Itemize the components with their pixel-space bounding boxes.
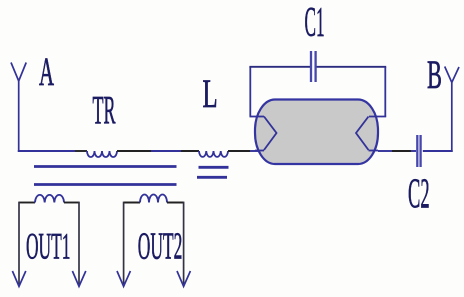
wire: OUT2 right lead xyxy=(183,202,185,284)
wire: filter to C2 xyxy=(378,150,392,152)
transformer secondary winding 2 (right) xyxy=(124,202,140,204)
arrow: OUT1 left xyxy=(12,271,25,286)
wire: OUT1 right lead xyxy=(78,202,80,284)
arrow: OUT2 left xyxy=(117,271,130,286)
wire: C1 loop left vertical xyxy=(249,67,251,117)
svg-text:TR: TR xyxy=(93,87,116,132)
wire: main into left electrode xyxy=(255,150,264,152)
svg-text:A: A xyxy=(39,50,54,94)
svg-text:OUT2: OUT2 xyxy=(138,226,183,267)
wire: C2 to antenna B xyxy=(423,150,453,152)
wire: C1 loop top left xyxy=(249,66,310,68)
transformer core line 1 xyxy=(34,165,177,168)
wire: C1 loop top right xyxy=(316,66,386,68)
inductor L core line 2 xyxy=(197,176,227,179)
transformer TR primary coil xyxy=(87,151,117,157)
wire: OUT1 left lead xyxy=(18,202,20,284)
capacitor C2 xyxy=(416,135,418,167)
svg-text:C1: C1 xyxy=(305,0,325,45)
wire: OUT2 left lead xyxy=(123,202,125,284)
capacitor C1 xyxy=(310,51,312,82)
antenna B xyxy=(445,67,459,152)
inductor L coil xyxy=(199,151,228,157)
svg-text:C2: C2 xyxy=(408,171,430,218)
wire: main horizontal from antenna A to TR coil xyxy=(18,150,75,152)
antenna A xyxy=(11,63,26,152)
svg-text:B: B xyxy=(427,53,442,97)
filter body (ceramic filter) xyxy=(255,100,378,165)
wire: TR coil to L coil xyxy=(117,150,151,152)
svg-text:L: L xyxy=(203,72,218,116)
svg-text:OUT1: OUT1 xyxy=(26,227,70,268)
wire: C1 loop left stub xyxy=(250,116,265,118)
inductor L core line 1 xyxy=(199,166,229,169)
transformer core line 2 xyxy=(34,183,177,186)
transformer secondary winding 1 (left) xyxy=(19,202,35,204)
wire: L coil to filter xyxy=(228,150,250,152)
filter electrode left xyxy=(264,117,277,151)
wire: right electrode to body edge xyxy=(369,150,379,152)
wire: C1 loop right stub xyxy=(369,116,386,118)
arrow: OUT2 right xyxy=(177,271,190,286)
wire: C1 loop right vertical xyxy=(384,67,386,117)
arrow: OUT1 right xyxy=(72,271,85,286)
filter electrode right xyxy=(356,117,369,151)
